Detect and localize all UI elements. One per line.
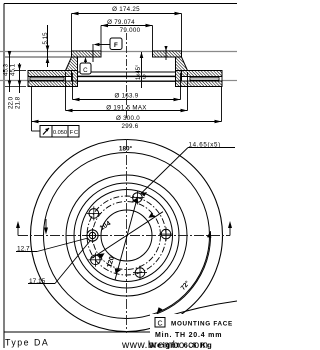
vertical centerline bbox=[126, 139, 128, 333]
leader curve bottom right bbox=[162, 301, 237, 318]
svg-text:Type DA: Type DA bbox=[5, 338, 49, 348]
svg-text:Ø 300.0: Ø 300.0 bbox=[116, 115, 140, 122]
outer circle Ø300 bbox=[31, 140, 223, 332]
svg-text:12.7: 12.7 bbox=[17, 246, 30, 253]
svg-text:C: C bbox=[157, 321, 162, 328]
feature control frame runout 0.050 FC bbox=[32, 122, 80, 138]
svg-text:Ø 191.5 MAX: Ø 191.5 MAX bbox=[106, 105, 146, 112]
dim 5.15 bbox=[42, 25, 50, 67]
ring top plate left (hatched) bbox=[28, 71, 72, 77]
svg-text:C: C bbox=[74, 130, 78, 136]
dim Ø174.25 bbox=[72, 6, 182, 51]
dim Ø163.9 bbox=[73, 73, 181, 101]
bolt holes bbox=[85, 191, 173, 280]
svg-text:Ø 79.074: Ø 79.074 bbox=[107, 19, 135, 26]
bolt hole 218deg bbox=[88, 253, 102, 267]
border frame left bbox=[3, 4, 5, 349]
dim Ø191.5 MAX bbox=[66, 72, 188, 112]
svg-text:299.6: 299.6 bbox=[122, 123, 139, 130]
datum F box bbox=[93, 38, 122, 62]
svg-text:21.8: 21.8 bbox=[15, 96, 22, 109]
ring bottom plate right (hatched) bbox=[176, 81, 223, 87]
check arrow at x=46 bbox=[44, 219, 48, 235]
circle Ø104 (dash-dot) bbox=[93, 202, 161, 270]
dim 45.3 / 45.1 bbox=[3, 51, 72, 92]
circle R83 bbox=[44, 153, 210, 319]
ring bottom plate left (hatched) bbox=[28, 81, 78, 87]
dim 14.65(x5) with leader bbox=[141, 142, 235, 197]
runout arrow right bbox=[228, 221, 232, 236]
chamfer tick right bbox=[164, 46, 167, 60]
dim 104 diagonal bbox=[92, 212, 164, 259]
border frame bottom bbox=[4, 331, 237, 333]
dim 120 diagonal bbox=[106, 198, 138, 281]
svg-text:17.15: 17.15 bbox=[29, 278, 46, 285]
hat neck wall left (hatched) bbox=[72, 57, 78, 81]
mounting face reference line (gray) bbox=[0, 51, 237, 53]
svg-text:45.3: 45.3 bbox=[3, 63, 10, 76]
outer face reference gray stubs bbox=[0, 80, 28, 82]
hat neck wall right (hatched) bbox=[176, 57, 182, 81]
circle Ø191.5 bbox=[66, 175, 187, 296]
svg-text:MOUNTING FACE: MOUNTING FACE bbox=[171, 321, 233, 328]
svg-text:22.0: 22.0 bbox=[8, 96, 15, 109]
runout arrow left bbox=[16, 221, 20, 236]
svg-text:C: C bbox=[83, 67, 88, 74]
circle hat step bbox=[81, 190, 173, 282]
svg-text:Ø 174.25: Ø 174.25 bbox=[112, 6, 140, 13]
circle Ø163.9 bbox=[74, 183, 179, 288]
hat cone right (hatched) bbox=[176, 57, 188, 71]
horizontal centerline bbox=[18, 235, 230, 237]
dim 22.0 / 21.8 bbox=[8, 63, 27, 109]
datum C box (section) bbox=[80, 57, 91, 74]
svg-text:0.050: 0.050 bbox=[53, 130, 67, 136]
svg-text:Min. TH 20.4 mm: Min. TH 20.4 mm bbox=[155, 332, 222, 339]
svg-text:180°: 180° bbox=[119, 145, 133, 153]
svg-text:1x45°: 1x45° bbox=[136, 64, 142, 80]
svg-text:F: F bbox=[114, 42, 118, 49]
svg-text:14.65(x5): 14.65(x5) bbox=[189, 142, 221, 149]
dim 17.15 leader bbox=[28, 241, 90, 285]
ring left outer wall bbox=[27, 71, 29, 87]
center bore Ø79 bbox=[101, 210, 152, 261]
dim 72deg arc bbox=[157, 231, 212, 314]
hat plate left (hatched) bbox=[72, 51, 102, 57]
hat cone left (hatched) bbox=[66, 57, 78, 71]
vent vane right bbox=[190, 77, 219, 80]
dim 12.7 leader bbox=[16, 238, 88, 253]
hat interior background edges bbox=[78, 71, 176, 73]
bolt hole 74deg bbox=[130, 191, 144, 205]
svg-text:45.1: 45.1 bbox=[10, 63, 17, 76]
dim Ø300.0 / 299.6 bbox=[32, 87, 222, 131]
bolt hole 290deg bbox=[133, 266, 147, 280]
svg-text:5.15: 5.15 bbox=[42, 32, 49, 45]
border frame top bbox=[4, 3, 237, 5]
bolt circle Ø120 (dash-dot) bbox=[87, 196, 166, 275]
section centerline bbox=[126, 33, 128, 120]
dim 1x45 chamfer bbox=[136, 52, 147, 88]
set screw hole bbox=[85, 228, 100, 243]
hat plate right (hatched) bbox=[153, 51, 182, 57]
svg-text:Ø 163.9: Ø 163.9 bbox=[114, 93, 138, 100]
dim Ø79.074 / 79.000 bbox=[101, 19, 153, 51]
bolt hole 2deg bbox=[159, 227, 173, 241]
ring top plate right (hatched) bbox=[182, 71, 223, 77]
bolt hole 146deg bbox=[87, 206, 101, 220]
svg-text:79.000: 79.000 bbox=[120, 27, 141, 34]
svg-text:Weight 6.8 Kg: Weight 6.8 Kg bbox=[149, 341, 213, 350]
mounting face note bbox=[150, 314, 237, 350]
ring right outer wall bbox=[221, 71, 223, 87]
vent vane left bbox=[30, 77, 64, 80]
